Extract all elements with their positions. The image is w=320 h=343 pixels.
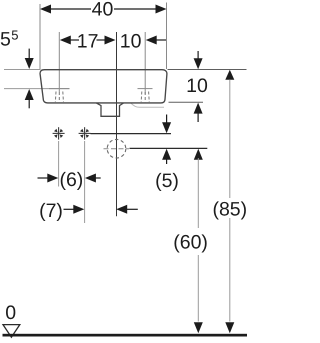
dimension 5.5 arrow up xyxy=(25,89,34,100)
drain circle horizontal centerline xyxy=(104,148,130,150)
svg-text:5: 5 xyxy=(0,29,11,51)
drain height reference line xyxy=(130,147,208,149)
tap hole left (dashed) xyxy=(49,88,70,90)
dimension (60) line xyxy=(197,158,199,228)
svg-text:10: 10 xyxy=(120,31,142,53)
dimension (7) arrow right xyxy=(64,208,75,210)
dimension (85) line xyxy=(229,80,231,199)
floor line xyxy=(3,334,248,337)
dimension (6) arrow left xyxy=(38,177,50,179)
drain outlet circle (dashed) xyxy=(107,139,126,158)
dimension (85) arrow down xyxy=(225,322,234,333)
fixing hole extension line right xyxy=(84,141,86,223)
dimension 17 arrow right xyxy=(105,36,116,45)
fixing hole cross right xyxy=(79,127,91,139)
dimension 10 right arrow up xyxy=(194,103,203,114)
fixing hole extension line left xyxy=(58,141,60,187)
svg-text:10: 10 xyxy=(186,75,208,97)
svg-text:(5): (5) xyxy=(155,170,179,192)
dimension 40 arrow right xyxy=(156,5,167,14)
dimension 5.5 arrow down xyxy=(28,49,30,60)
svg-text:17: 17 xyxy=(77,31,99,53)
svg-text:0: 0 xyxy=(5,302,16,324)
dimension 17 arrow left xyxy=(60,36,71,45)
dimension 40 line xyxy=(49,8,91,10)
dimension 10 right reference line bottom xyxy=(169,101,204,103)
tap hole right (dashed) xyxy=(138,88,153,90)
dimension (5) arrow up xyxy=(162,149,171,160)
dimension 5.5 reference line bottom (tap axis) xyxy=(4,88,70,90)
dimension (60) arrow down xyxy=(194,322,203,333)
dimension 10 right arrow down xyxy=(197,51,199,60)
dimension (5) arrow down xyxy=(166,115,168,125)
dimension 40 extension line right xyxy=(166,3,168,70)
washbasin rear underside line xyxy=(131,103,164,107)
drain boss xyxy=(97,103,124,116)
svg-text:(60): (60) xyxy=(173,232,208,254)
dimension 40 extension line left xyxy=(39,4,41,70)
dimension 10 right reference line top xyxy=(168,69,247,71)
dimension (60) arrow up xyxy=(194,149,203,160)
dimension 40 arrow left xyxy=(40,5,51,14)
dimension (85) arrow up xyxy=(225,70,234,80)
centerline extension (drain axis) xyxy=(116,32,118,216)
dimension 5.5 reference line top xyxy=(4,69,40,71)
svg-text:5: 5 xyxy=(11,28,18,43)
svg-text:(6): (6) xyxy=(59,169,83,191)
datum triangle xyxy=(3,325,20,338)
fixing holes reference line xyxy=(91,133,172,135)
dimension (6) arrow right xyxy=(85,174,96,183)
dimension (7) arrow left (at drain axis) xyxy=(116,205,127,214)
dimension 17 extension line (tap hole left) xyxy=(58,32,60,92)
dimension 10 top outside arrow xyxy=(146,36,157,45)
svg-text:40: 40 xyxy=(92,0,114,21)
svg-text:(7): (7) xyxy=(39,200,63,222)
svg-text:(85): (85) xyxy=(212,199,247,221)
washbasin outline xyxy=(40,70,167,103)
fixing hole cross left xyxy=(53,127,65,139)
dimension 10 extension line (tap hole right) xyxy=(144,32,146,94)
